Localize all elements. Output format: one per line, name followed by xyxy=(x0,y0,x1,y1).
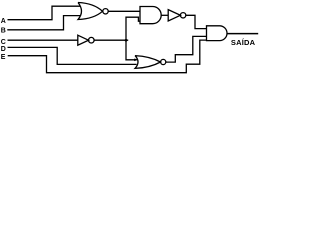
bubble of NOR U5 xyxy=(161,59,166,64)
wire junction down to NOR2 top input xyxy=(126,40,137,60)
AND gate U3 xyxy=(140,7,161,24)
wire input D to NOR2 bottom input xyxy=(8,47,137,64)
NOR gate U5 (inputs NOT C, D) xyxy=(135,56,161,69)
svg-text:B: B xyxy=(1,28,6,35)
svg-text:SAÍDA: SAÍDA xyxy=(231,38,256,47)
wire AND U6 output SAIDA xyxy=(227,33,258,35)
junction dot node F xyxy=(125,39,128,42)
AND gate U6 (3-input, output) xyxy=(207,26,227,41)
NOR gate U1 (inputs A,B) xyxy=(78,3,103,20)
svg-text:E: E xyxy=(1,54,6,61)
svg-text:C: C xyxy=(1,39,6,46)
svg-text:A: A xyxy=(1,18,6,25)
bubble of inverter U2 xyxy=(89,37,95,43)
wire input C to inverter U2 input xyxy=(8,39,78,41)
wire input E to AND3 bottom input xyxy=(8,40,207,73)
wire input A to NOR1 top input xyxy=(8,6,81,20)
inverter U2 (input C) xyxy=(78,35,89,45)
wire inverter U2 output to junction xyxy=(94,39,128,41)
svg-text:D: D xyxy=(1,46,6,53)
wire input B to NOR1 bottom input xyxy=(7,16,80,30)
bubble of NOR U1 xyxy=(103,9,108,14)
arrowhead at NOR2 top input xyxy=(134,59,137,61)
wire AND U3 output to inverter U4 xyxy=(161,14,168,16)
wire NOR U1 output to AND U3 top input xyxy=(108,10,140,12)
bubble of inverter U4 xyxy=(180,13,185,18)
inverter U4 xyxy=(168,10,180,21)
wire junction up to AND U3 bottom input xyxy=(126,17,140,40)
wire NOR U5 output to AND3 middle input xyxy=(166,36,207,62)
wire inverter U4 output to AND3 top input xyxy=(186,15,207,28)
